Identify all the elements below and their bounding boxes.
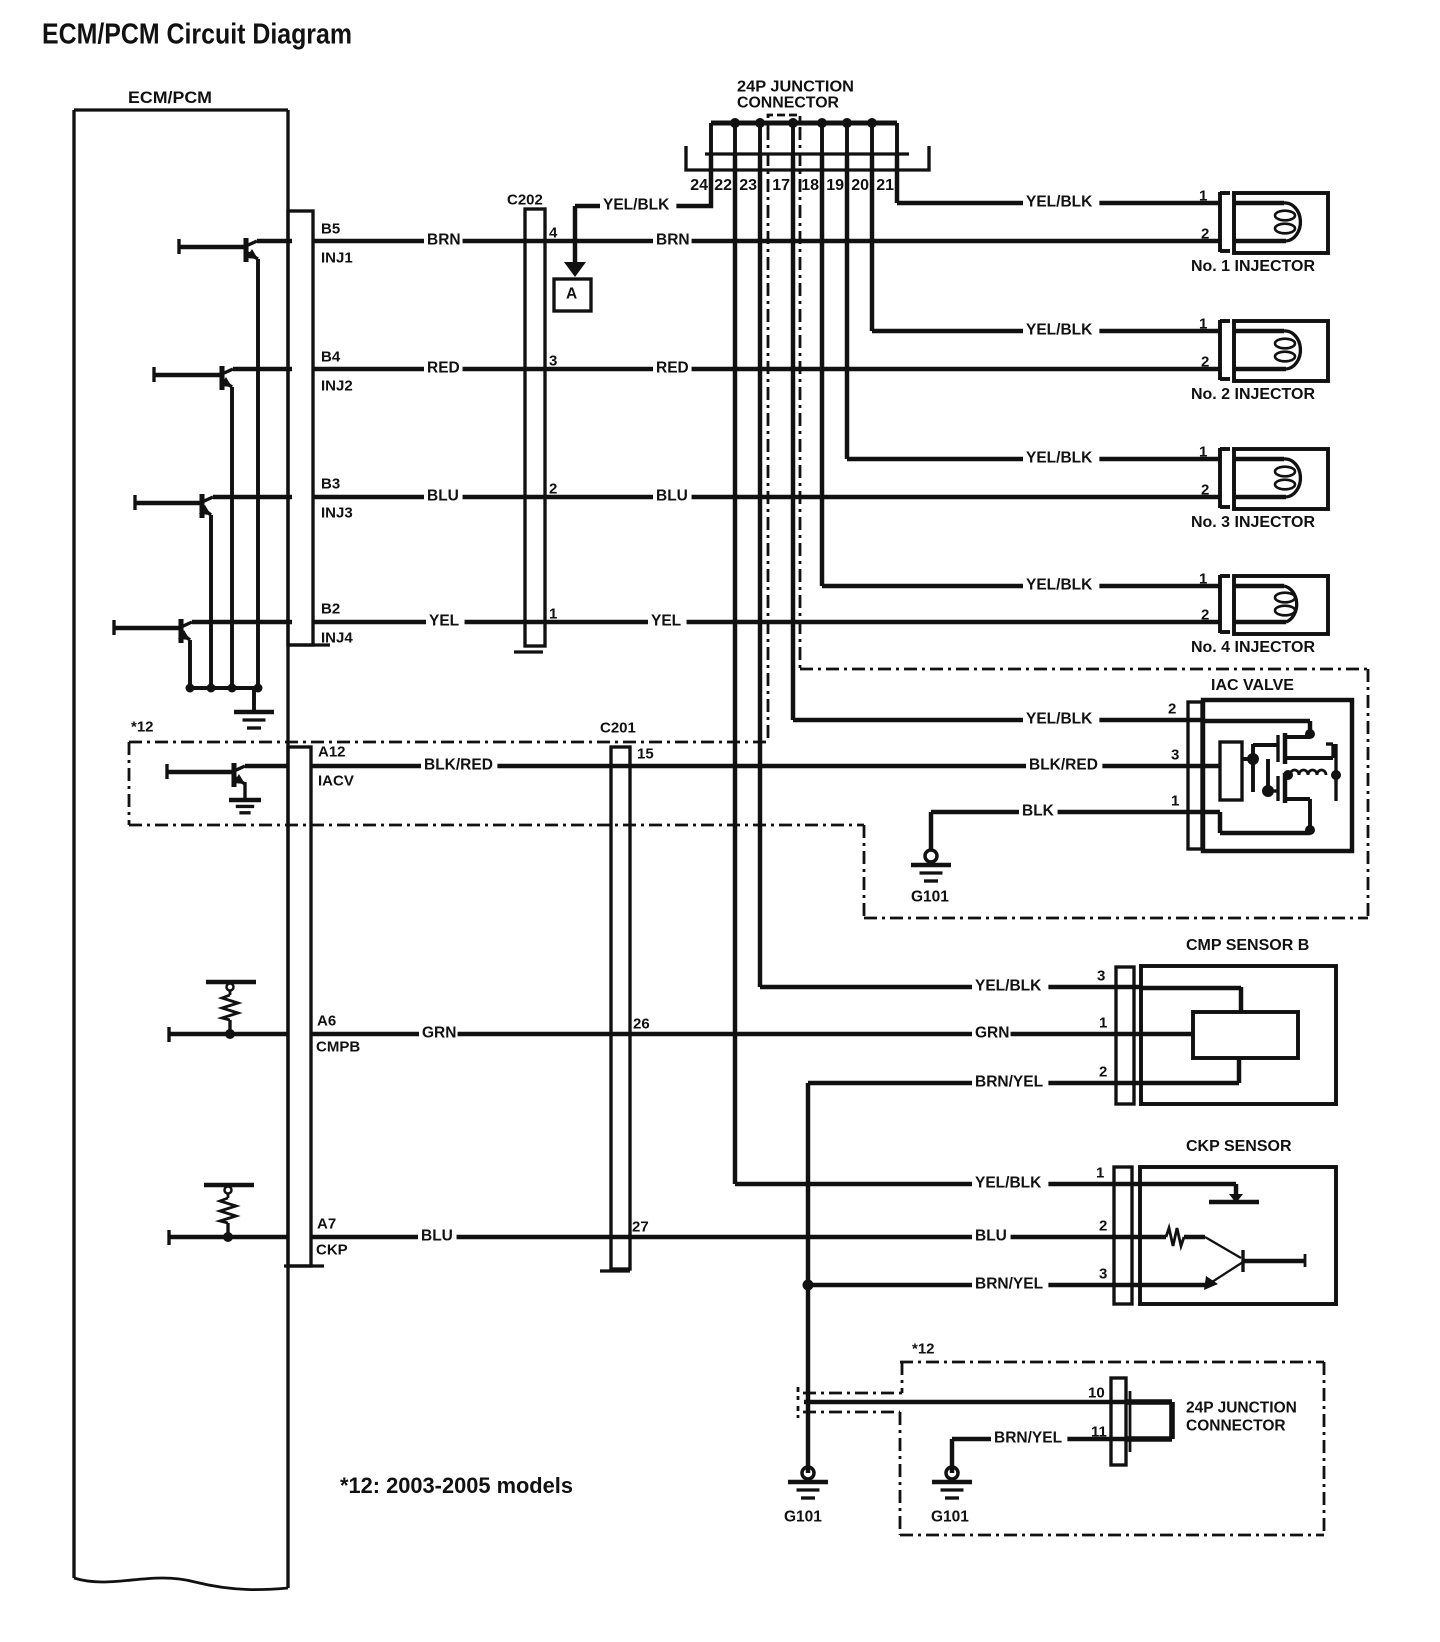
wire label BLU right CKP bbox=[972, 1226, 1011, 1246]
ground G101 under IAC bbox=[925, 850, 937, 862]
wire label BRN/YEL CMP bbox=[972, 1072, 1048, 1092]
svg-text:27: 27 bbox=[632, 1218, 649, 1235]
injector 1 pin wires bbox=[897, 201, 1219, 205]
dash-dot wire from pin 17 area to IAC box bbox=[799, 127, 802, 669]
svg-text:2: 2 bbox=[1201, 353, 1209, 370]
svg-text:4: 4 bbox=[549, 224, 558, 241]
A box bbox=[554, 279, 591, 311]
svg-text:B4: B4 bbox=[321, 348, 341, 365]
svg-text:BRN/YEL: BRN/YEL bbox=[994, 1430, 1062, 1447]
svg-text:YEL/BLK: YEL/BLK bbox=[1026, 711, 1093, 728]
CKP connector bracket bbox=[1114, 1167, 1132, 1304]
svg-text:1: 1 bbox=[1199, 187, 1207, 204]
svg-text:ECM/PCM Circuit Diagram: ECM/PCM Circuit Diagram bbox=[42, 18, 352, 50]
svg-text:18: 18 bbox=[801, 177, 819, 194]
wire BRN/YEL to CKP pin 3 bbox=[808, 1283, 1141, 1287]
svg-text:20: 20 bbox=[851, 177, 869, 194]
svg-text:2: 2 bbox=[1201, 481, 1209, 498]
junction wire 21 to injector 1 bbox=[895, 154, 899, 203]
wire label YEL/BLK injector 2 bbox=[1023, 320, 1099, 340]
svg-text:BLU: BLU bbox=[421, 1228, 453, 1245]
wire label YEL/BLK CMP bbox=[972, 976, 1048, 996]
wire label YEL/BLK IAC bbox=[1023, 709, 1099, 729]
svg-text:2: 2 bbox=[1099, 1217, 1107, 1234]
wire label YEL/BLK injector 1 bbox=[1023, 192, 1099, 212]
svg-text:CONNECTOR: CONNECTOR bbox=[1186, 1418, 1286, 1435]
svg-text:No. 4 INJECTOR: No. 4 INJECTOR bbox=[1191, 639, 1315, 656]
svg-text:3: 3 bbox=[1097, 967, 1105, 984]
svg-text:RED: RED bbox=[656, 360, 689, 377]
injector 4 pin wires bbox=[822, 584, 1219, 588]
svg-text:1: 1 bbox=[1199, 570, 1207, 587]
svg-text:26: 26 bbox=[633, 1015, 650, 1032]
svg-text:1: 1 bbox=[549, 605, 557, 622]
junction wire 23 down to CMP sensor bbox=[758, 154, 762, 987]
wire label BRN left bbox=[424, 230, 463, 250]
wire label GRN right bbox=[972, 1023, 1011, 1043]
junction wire 22 down to CKP sensor bbox=[733, 154, 737, 1184]
svg-text:1: 1 bbox=[1171, 792, 1179, 809]
svg-text:10: 10 bbox=[1088, 1384, 1105, 1401]
dash-dot stubs to wire 10 bbox=[803, 1392, 902, 1395]
transistor IACV bbox=[165, 764, 168, 779]
svg-text:CKP SENSOR: CKP SENSOR bbox=[1186, 1138, 1292, 1155]
IAC valve internals bbox=[1203, 719, 1310, 723]
svg-text:YEL/BLK: YEL/BLK bbox=[975, 1175, 1042, 1192]
ground G101 bottom left bbox=[802, 1467, 814, 1479]
svg-text:A6: A6 bbox=[317, 1012, 336, 1029]
svg-text:11: 11 bbox=[1091, 1423, 1107, 1440]
CMP sensor internals bbox=[1141, 986, 1241, 990]
svg-text:BLK: BLK bbox=[1022, 803, 1055, 820]
svg-text:RED: RED bbox=[427, 360, 460, 377]
injector 3 pin wires bbox=[847, 457, 1219, 461]
svg-text:BRN: BRN bbox=[656, 232, 690, 249]
wire label YEL right bbox=[648, 611, 687, 631]
transistor INJ3 bbox=[133, 495, 136, 510]
emitter rail and ground bbox=[190, 686, 258, 690]
wire 10 bbox=[804, 1400, 1131, 1404]
wire label BRN right bbox=[653, 230, 692, 250]
svg-text:22: 22 bbox=[714, 177, 732, 194]
svg-text:BLU: BLU bbox=[656, 488, 688, 505]
transistor INJ1 bbox=[177, 239, 180, 254]
svg-text:3: 3 bbox=[549, 352, 557, 369]
svg-text:1: 1 bbox=[1199, 315, 1207, 332]
wire B4 RED row bbox=[313, 367, 1219, 371]
wire label BLK/RED left bbox=[421, 755, 497, 775]
wire label RED right bbox=[653, 358, 692, 378]
svg-text:A: A bbox=[566, 286, 577, 303]
svg-text:CMP SENSOR B: CMP SENSOR B bbox=[1186, 937, 1309, 954]
injector 2 pin wires bbox=[872, 329, 1219, 333]
ground G101 bottom right bbox=[946, 1467, 958, 1479]
svg-text:2: 2 bbox=[1168, 700, 1176, 717]
junction wire 20 down to injector 2 bbox=[870, 154, 874, 331]
ECM/PCM box bbox=[74, 110, 288, 1588]
ECM connector bar A row bbox=[288, 747, 311, 1266]
svg-text:YEL: YEL bbox=[651, 613, 681, 630]
svg-text:BLU: BLU bbox=[975, 1228, 1007, 1245]
wire label BLK bbox=[1019, 801, 1058, 821]
wire label YEL/BLK injector 4 bbox=[1023, 575, 1099, 595]
svg-text:G101: G101 bbox=[911, 889, 949, 906]
svg-text:1: 1 bbox=[1096, 1164, 1104, 1181]
wire label BRN/YEL CKP bbox=[972, 1274, 1048, 1294]
svg-text:YEL/BLK: YEL/BLK bbox=[1026, 194, 1093, 211]
CKP sensor internals bbox=[1140, 1182, 1236, 1186]
wire label RED left bbox=[424, 358, 463, 378]
svg-text:2: 2 bbox=[1201, 606, 1209, 623]
svg-text:GRN: GRN bbox=[975, 1025, 1009, 1042]
transistor INJ2 bbox=[152, 367, 155, 382]
svg-text:C202: C202 bbox=[507, 191, 543, 208]
svg-text:24P JUNCTION: 24P JUNCTION bbox=[737, 79, 854, 96]
svg-text:YEL: YEL bbox=[429, 613, 459, 630]
svg-text:YEL/BLK: YEL/BLK bbox=[1026, 450, 1093, 467]
svg-text:YEL/BLK: YEL/BLK bbox=[1026, 577, 1093, 594]
svg-text:2: 2 bbox=[1201, 225, 1209, 242]
svg-text:19: 19 bbox=[826, 177, 844, 194]
wire 11 BRN/YEL bbox=[952, 1437, 1131, 1441]
junction wire 24 to YEL/BLK A bbox=[674, 154, 711, 206]
svg-text:B3: B3 bbox=[321, 475, 340, 492]
svg-text:CMPB: CMPB bbox=[316, 1038, 360, 1055]
svg-text:CKP: CKP bbox=[316, 1241, 348, 1258]
svg-text:2: 2 bbox=[1099, 1063, 1107, 1080]
wire BLK to IAC pin 1 and G101 bbox=[931, 810, 1203, 814]
svg-text:G101: G101 bbox=[931, 1509, 969, 1526]
wire YEL/BLK to CKP pin 1 bbox=[735, 1182, 1141, 1186]
svg-text:INJ4: INJ4 bbox=[321, 629, 353, 646]
24P junction connector bracket bbox=[686, 146, 929, 170]
svg-text:21: 21 bbox=[876, 177, 894, 194]
CMP connector bracket bbox=[1116, 967, 1134, 1104]
svg-text:BLK/RED: BLK/RED bbox=[424, 757, 493, 774]
wire B5 BRN row bbox=[313, 239, 1219, 243]
svg-text:ECM/PCM: ECM/PCM bbox=[128, 88, 212, 107]
ECM connector bar B row bbox=[288, 211, 313, 645]
svg-text:2: 2 bbox=[549, 480, 557, 497]
No.4 injector bbox=[1218, 575, 1222, 633]
wire A7 BLU bbox=[169, 1235, 288, 1239]
svg-text:YEL/BLK: YEL/BLK bbox=[975, 978, 1042, 995]
wire label YEL/BLK injector 3 bbox=[1023, 448, 1099, 468]
svg-text:BRN: BRN bbox=[427, 232, 461, 249]
wire B3 BLU row bbox=[313, 495, 1219, 499]
svg-text:*12: *12 bbox=[912, 1340, 935, 1357]
wire B2 YEL row bbox=[313, 620, 1219, 624]
junction wire 19 down to injector 3 bbox=[845, 154, 849, 459]
wire label BLU right bbox=[653, 486, 692, 506]
svg-text:15: 15 bbox=[637, 745, 654, 762]
CMP sensor box bbox=[1141, 966, 1336, 1104]
svg-text:BLK/RED: BLK/RED bbox=[1029, 757, 1098, 774]
No.3 injector bbox=[1218, 448, 1222, 508]
svg-text:24P JUNCTION: 24P JUNCTION bbox=[1186, 1400, 1297, 1417]
svg-text:YEL/BLK: YEL/BLK bbox=[1026, 322, 1093, 339]
wire label BLK/RED right bbox=[1026, 755, 1102, 775]
svg-text:B2: B2 bbox=[321, 600, 340, 617]
wire label YEL/BLK CKP bbox=[972, 1173, 1048, 1193]
wire label GRN left bbox=[419, 1023, 458, 1043]
dash-dot wire from pin 23 area to *12 box bbox=[767, 127, 770, 742]
resistor pull-up A6 bbox=[206, 980, 256, 984]
resistor pull-up A7 bbox=[204, 1183, 254, 1187]
svg-text:BRN/YEL: BRN/YEL bbox=[975, 1074, 1043, 1091]
*12 dash-dot box upper bbox=[129, 741, 768, 744]
svg-text:GRN: GRN bbox=[422, 1025, 456, 1042]
No.2 injector bbox=[1218, 320, 1222, 380]
24P junction connector lower symbol bbox=[1111, 1378, 1126, 1465]
IAC valve connector bracket bbox=[1188, 702, 1202, 849]
svg-text:*12: 2003-2005 models: *12: 2003-2005 models bbox=[340, 1473, 573, 1498]
CKP sensor box bbox=[1140, 1167, 1336, 1304]
BRN/YEL vertical to G101 bbox=[806, 1083, 810, 1473]
svg-text:No. 2 INJECTOR: No. 2 INJECTOR bbox=[1191, 386, 1315, 403]
svg-text:IAC VALVE: IAC VALVE bbox=[1211, 677, 1294, 694]
svg-text:C201: C201 bbox=[600, 719, 636, 736]
YEL/BLK label and arrow to A bbox=[575, 204, 674, 208]
svg-text:3: 3 bbox=[1099, 1265, 1107, 1282]
junction wire 18 down to injector 4 bbox=[820, 154, 824, 586]
svg-text:1: 1 bbox=[1199, 443, 1207, 460]
wire A12 BLK/RED bbox=[245, 764, 288, 768]
wire label BLU left A7 bbox=[418, 1226, 457, 1246]
svg-text:1: 1 bbox=[1099, 1014, 1107, 1031]
svg-text:No. 3 INJECTOR: No. 3 INJECTOR bbox=[1191, 514, 1315, 531]
svg-text:G101: G101 bbox=[784, 1509, 822, 1526]
svg-text:A7: A7 bbox=[317, 1215, 336, 1232]
No.1 injector bbox=[1218, 192, 1222, 252]
transistor INJ4 bbox=[112, 620, 115, 635]
svg-text:23: 23 bbox=[739, 177, 757, 194]
wire A6 GRN bbox=[169, 1032, 288, 1036]
svg-text:INJ2: INJ2 bbox=[321, 377, 353, 394]
svg-text:24: 24 bbox=[690, 177, 708, 194]
svg-text:3: 3 bbox=[1171, 746, 1179, 763]
24P junction connector comb bbox=[711, 120, 897, 125]
svg-text:IACV: IACV bbox=[318, 772, 354, 789]
svg-text:BRN/YEL: BRN/YEL bbox=[975, 1276, 1043, 1293]
svg-text:*12: *12 bbox=[131, 718, 154, 735]
svg-text:No. 1 INJECTOR: No. 1 INJECTOR bbox=[1191, 258, 1315, 275]
wire YEL/BLK to IAC pin 2 bbox=[793, 718, 1203, 722]
junction wire 17 down to IAC valve bbox=[791, 154, 795, 720]
wire label YEL left bbox=[426, 611, 465, 631]
svg-text:B5: B5 bbox=[321, 220, 340, 237]
*12 dash-dot box lower bbox=[900, 1361, 1324, 1364]
svg-text:BLU: BLU bbox=[427, 488, 459, 505]
wire label BLU left bbox=[424, 486, 463, 506]
svg-text:17: 17 bbox=[772, 177, 790, 194]
svg-text:CONNECTOR: CONNECTOR bbox=[737, 95, 839, 112]
IAC dash-dot box bbox=[800, 668, 1368, 671]
svg-text:INJ3: INJ3 bbox=[321, 504, 353, 521]
svg-text:YEL/BLK: YEL/BLK bbox=[603, 197, 670, 214]
IACV emitter ground bbox=[243, 782, 246, 798]
wire YEL/BLK to CMP pin 3 bbox=[760, 985, 1141, 989]
svg-text:A12: A12 bbox=[318, 743, 346, 760]
wire BRN/YEL to CMP pin 2 bbox=[808, 1081, 1141, 1085]
svg-text:INJ1: INJ1 bbox=[321, 249, 353, 266]
wire label BRN/YEL bottom bbox=[991, 1428, 1067, 1448]
small dashed bracket at connector (*12 wires) bbox=[768, 115, 800, 130]
